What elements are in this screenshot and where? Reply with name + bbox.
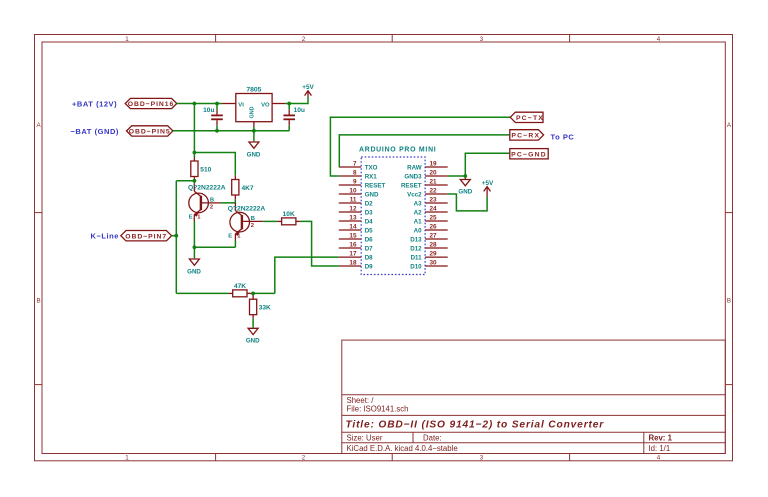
svg-text:D8: D8 bbox=[365, 254, 373, 261]
arduino right pin stubs bbox=[425, 167, 448, 266]
svg-text:B: B bbox=[210, 197, 214, 203]
svg-text:A1: A1 bbox=[414, 218, 422, 225]
svg-text:VO: VO bbox=[261, 102, 270, 108]
svg-text:2: 2 bbox=[302, 455, 306, 462]
svg-text:GND: GND bbox=[187, 268, 201, 275]
svg-text:A3: A3 bbox=[414, 200, 422, 207]
svg-text:23: 23 bbox=[430, 196, 438, 203]
svg-text:GND: GND bbox=[365, 191, 379, 198]
svg-text:A0: A0 bbox=[414, 227, 422, 234]
resistor R 510 bbox=[191, 157, 212, 181]
wire OBD-PIN7 to K-line bbox=[172, 235, 177, 237]
junction C1 top bbox=[215, 102, 219, 106]
global label PC-RX bbox=[510, 130, 544, 140]
junction K-line node bbox=[193, 179, 197, 183]
wire 10K to D9 bbox=[300, 221, 339, 266]
svg-text:7: 7 bbox=[353, 160, 357, 167]
svg-text:D5: D5 bbox=[365, 227, 373, 234]
junction +BAT branch bbox=[193, 102, 197, 106]
svg-text:K−Line: K−Line bbox=[91, 232, 120, 241]
global label OBD-PIN5 bbox=[127, 126, 173, 136]
wire -BAT rail bbox=[173, 130, 289, 132]
svg-text:B: B bbox=[37, 298, 41, 305]
wire emitters join bbox=[194, 246, 235, 248]
svg-text:47K: 47K bbox=[234, 283, 246, 290]
wire Q2 base to 10K bbox=[263, 220, 277, 222]
svg-text:PC−GND: PC−GND bbox=[511, 152, 547, 159]
wire K-line vertical bbox=[175, 181, 177, 294]
svg-text:+5V: +5V bbox=[302, 84, 314, 91]
svg-text:−BAT (GND): −BAT (GND) bbox=[71, 127, 119, 136]
svg-text:16: 16 bbox=[349, 241, 357, 248]
wire K-line node horizontal bbox=[176, 180, 194, 182]
svg-text:3: 3 bbox=[480, 36, 484, 43]
svg-text:VI: VI bbox=[238, 102, 244, 108]
svg-text:TXO: TXO bbox=[365, 164, 378, 171]
svg-text:9: 9 bbox=[353, 178, 357, 185]
wire branch to 4K7 bbox=[194, 153, 235, 176]
svg-text:29: 29 bbox=[430, 251, 438, 258]
arduino right pin numbers 19-30 bbox=[430, 160, 438, 266]
svg-text:Id: 1/1: Id: 1/1 bbox=[649, 444, 671, 453]
svg-text:14: 14 bbox=[349, 223, 357, 230]
resistor R 4K7 bbox=[232, 175, 254, 199]
transistor Q2 2N2222A bbox=[228, 203, 266, 241]
frame row letters bbox=[37, 122, 732, 305]
junction C1 bottom bbox=[215, 129, 219, 133]
wire +BAT branch down to R 510 bbox=[193, 104, 195, 158]
svg-text:18: 18 bbox=[349, 259, 357, 266]
arduino left pin stubs bbox=[339, 167, 361, 266]
junction GND3 node bbox=[463, 174, 467, 178]
junction emitter node bbox=[193, 245, 197, 249]
resistor R 47K bbox=[228, 283, 251, 297]
wire Q2 emitter down bbox=[234, 241, 236, 248]
svg-text:1: 1 bbox=[125, 455, 129, 462]
svg-text:D7: D7 bbox=[365, 245, 373, 252]
wire PC-TX to RX1 pin8 bbox=[330, 117, 510, 176]
resistor R 10K bbox=[277, 211, 300, 225]
svg-text:21: 21 bbox=[430, 178, 438, 185]
frame column numbers top bbox=[125, 36, 661, 43]
svg-text:E: E bbox=[189, 215, 193, 221]
wire divider node bbox=[251, 292, 274, 294]
frame column ticks bottom bbox=[216, 454, 570, 461]
svg-text:GND: GND bbox=[249, 106, 255, 118]
svg-text:10: 10 bbox=[349, 187, 357, 194]
svg-text:Vcc2: Vcc2 bbox=[407, 191, 422, 198]
svg-text:10u: 10u bbox=[203, 107, 214, 114]
svg-text:Q?2N2222A: Q?2N2222A bbox=[188, 185, 226, 192]
svg-text:Title: OBD−II (ISO 9141−2) to: Title: OBD−II (ISO 9141−2) to Serial Con… bbox=[346, 420, 605, 431]
svg-text:OBD−PIN5: OBD−PIN5 bbox=[129, 129, 171, 136]
svg-text:4K7: 4K7 bbox=[242, 185, 254, 192]
svg-text:10u: 10u bbox=[294, 107, 305, 114]
sheet outer border frame bbox=[35, 35, 733, 461]
svg-text:10K: 10K bbox=[283, 211, 295, 218]
svg-text:RAW: RAW bbox=[407, 164, 422, 171]
sheet inner border frame bbox=[42, 42, 725, 454]
svg-text:4: 4 bbox=[657, 36, 661, 43]
title block outline bbox=[342, 340, 726, 453]
junction divider node bbox=[251, 292, 255, 296]
svg-text:15: 15 bbox=[349, 232, 357, 239]
svg-text:Size: User: Size: User bbox=[347, 433, 383, 442]
IC U2 ARDUINO PRO MINI bbox=[359, 146, 436, 274]
global label OBD-PIN7 bbox=[121, 231, 172, 241]
wire Q1 base to Q2 collector node bbox=[220, 199, 235, 203]
svg-text:A2: A2 bbox=[414, 209, 422, 216]
svg-text:D4: D4 bbox=[365, 218, 373, 225]
svg-text:Date:: Date: bbox=[423, 433, 442, 442]
junction OBD-PIN7 node bbox=[174, 234, 178, 238]
ground (below 7805) bbox=[247, 142, 261, 158]
power +5V (regulator output) bbox=[302, 84, 314, 97]
svg-text:26: 26 bbox=[430, 223, 438, 230]
transistor Q1 2N2222A bbox=[188, 184, 226, 222]
junction R510/R4K7 branch bbox=[193, 151, 197, 155]
capacitor C1 10u bbox=[203, 104, 223, 131]
ground (Q1 emitter) bbox=[187, 259, 201, 275]
svg-text:33K: 33K bbox=[259, 304, 271, 311]
svg-text:17: 17 bbox=[349, 251, 357, 258]
wire K-line to 47K bbox=[176, 292, 228, 294]
wire Q1 collector up bbox=[193, 181, 195, 184]
junction 7805 GND bbox=[252, 129, 256, 133]
svg-text:B: B bbox=[251, 216, 255, 222]
junction C2 top bbox=[287, 102, 291, 106]
arduino left pin numbers 7-18 bbox=[349, 160, 357, 266]
svg-text:D11: D11 bbox=[411, 254, 423, 261]
svg-text:13: 13 bbox=[349, 214, 357, 221]
wire +BAT to 7805 VI bbox=[177, 103, 222, 105]
ground (GND3 node) bbox=[458, 176, 472, 195]
wire PC-GND to GND3 pin20 bbox=[448, 153, 510, 176]
svg-text:GND: GND bbox=[247, 151, 261, 158]
svg-text:2: 2 bbox=[210, 205, 213, 211]
svg-text:510: 510 bbox=[200, 166, 211, 173]
svg-text:Rev: 1: Rev: 1 bbox=[649, 433, 673, 442]
global label PC-GND bbox=[510, 149, 548, 159]
svg-text:Q?2N2222A: Q?2N2222A bbox=[228, 205, 266, 212]
svg-text:File: ISO9141.sch: File: ISO9141.sch bbox=[347, 405, 409, 414]
svg-text:2: 2 bbox=[251, 223, 254, 229]
svg-text:OBD−PIN16: OBD−PIN16 bbox=[128, 101, 175, 108]
svg-text:OBD−PIN7: OBD−PIN7 bbox=[125, 233, 167, 240]
frame row ticks left and right bbox=[35, 213, 733, 385]
svg-text:GND: GND bbox=[458, 188, 472, 195]
svg-text:E: E bbox=[228, 234, 232, 240]
svg-text:D12: D12 bbox=[410, 245, 422, 252]
svg-text:GND3: GND3 bbox=[404, 173, 422, 180]
svg-text:D2: D2 bbox=[365, 200, 373, 207]
svg-text:20: 20 bbox=[430, 169, 438, 176]
frame column numbers bottom bbox=[125, 455, 661, 462]
wire 33K to ground bbox=[252, 319, 254, 328]
svg-text:RESET: RESET bbox=[401, 182, 422, 189]
svg-text:27: 27 bbox=[430, 232, 438, 239]
svg-text:D9: D9 bbox=[365, 263, 373, 270]
capacitor C2 10u bbox=[283, 104, 305, 131]
svg-text:24: 24 bbox=[430, 205, 438, 212]
svg-text:GND: GND bbox=[246, 337, 260, 344]
global label PC-TX bbox=[510, 112, 544, 122]
svg-text:+5V: +5V bbox=[482, 180, 494, 187]
svg-text:D10: D10 bbox=[410, 263, 422, 270]
regulator U 7805 bbox=[222, 87, 286, 127]
svg-text:4: 4 bbox=[657, 455, 661, 462]
svg-text:D13: D13 bbox=[410, 236, 422, 243]
svg-text:11: 11 bbox=[350, 196, 357, 203]
svg-text:KiCad E.D.A. kicad 4.0.4−stab: KiCad E.D.A. kicad 4.0.4−stable bbox=[347, 444, 458, 453]
svg-text:19: 19 bbox=[430, 160, 438, 167]
svg-text:Sheet: /: Sheet: / bbox=[347, 396, 375, 405]
arduino right pin names bbox=[401, 164, 422, 270]
power +5V (arduino Vcc2) bbox=[482, 180, 494, 197]
wire 7805 GND down bbox=[253, 127, 255, 141]
ground (below 33K) bbox=[246, 328, 260, 344]
svg-text:3: 3 bbox=[480, 455, 484, 462]
svg-text:7805: 7805 bbox=[246, 87, 261, 94]
svg-text:+BAT (12V): +BAT (12V) bbox=[72, 99, 117, 108]
svg-text:B: B bbox=[727, 298, 731, 305]
svg-text:ARDUINO PRO MINI: ARDUINO PRO MINI bbox=[359, 146, 436, 153]
svg-text:D3: D3 bbox=[365, 209, 373, 216]
svg-text:12: 12 bbox=[349, 205, 357, 212]
svg-text:2: 2 bbox=[302, 36, 306, 43]
svg-text:22: 22 bbox=[430, 187, 438, 194]
wire 7805 VO to +5V bbox=[286, 97, 308, 104]
svg-text:RESET: RESET bbox=[365, 182, 386, 189]
svg-text:PC−TX: PC−TX bbox=[516, 115, 544, 122]
wire D8 to divider bbox=[275, 257, 339, 293]
svg-text:D6: D6 bbox=[365, 236, 373, 243]
arduino left pin names bbox=[365, 164, 386, 270]
svg-text:RX1: RX1 bbox=[365, 173, 378, 180]
wire Vcc2 to +5V bbox=[448, 194, 487, 211]
global label OBD-PIN16 bbox=[125, 98, 177, 108]
frame column ticks top bbox=[216, 35, 570, 43]
wire PC-RX to TXO pin7 bbox=[339, 135, 510, 167]
resistor R 33K bbox=[250, 293, 272, 318]
svg-text:28: 28 bbox=[430, 241, 438, 248]
svg-text:PC−RX: PC−RX bbox=[511, 133, 540, 140]
svg-text:To PC: To PC bbox=[551, 133, 575, 142]
svg-text:8: 8 bbox=[353, 169, 357, 176]
svg-text:30: 30 bbox=[430, 259, 438, 266]
svg-text:1: 1 bbox=[125, 36, 129, 43]
svg-text:25: 25 bbox=[430, 214, 438, 221]
wire Q1 emitter down bbox=[193, 222, 195, 259]
